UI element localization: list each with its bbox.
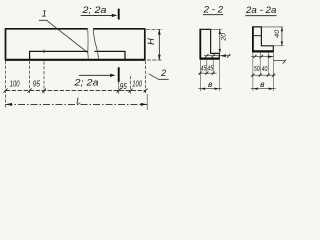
- 2-2 dim20 line: [219, 29, 221, 53]
- 2a quarter end slash: [283, 60, 287, 64]
- 2-2 small tick a: [199, 72, 202, 75]
- 2a small dim line: [251, 74, 275, 76]
- svg-text:40: 40: [262, 66, 268, 73]
- svg-text:40: 40: [274, 30, 281, 38]
- 2-2 quarter tick a: [205, 54, 209, 58]
- 2a quarter tick b: [260, 55, 264, 59]
- 2a dim40 mid extension: [274, 45, 284, 47]
- section 2a-2a inner line: [253, 35, 262, 37]
- section 2a-2a outline: [253, 27, 273, 52]
- 2a width arrow left: [253, 88, 258, 90]
- 2-2 small dim line: [199, 72, 217, 74]
- svg-text:2; 2а: 2; 2а: [73, 77, 98, 88]
- svg-text:50: 50: [254, 66, 260, 73]
- 2-2 width arrow left: [200, 88, 205, 90]
- extension line x29.6: [29, 61, 31, 94]
- svg-text:Н: Н: [146, 38, 156, 45]
- 2a quarter tick a: [253, 55, 257, 59]
- main view left edge: [5, 28, 7, 60]
- H dimension arrow down: [158, 55, 161, 60]
- L arrow right: [141, 103, 147, 106]
- section 2-2 left edge thick: [199, 29, 201, 60]
- break line left: [87, 29, 90, 59]
- notch inner line right: [95, 50, 126, 52]
- 2a quarter arrow tail: [274, 59, 286, 61]
- svg-text:45: 45: [201, 66, 207, 73]
- 2-2 quarter dim line: [204, 55, 220, 57]
- main view top edge left segment: [6, 28, 88, 30]
- svg-text:95: 95: [120, 81, 127, 91]
- svg-text:1: 1: [42, 8, 47, 18]
- svg-text:в: в: [260, 79, 265, 89]
- section 2-2 title underline: [203, 14, 223, 16]
- 2-2 dim20 arrow up: [219, 30, 221, 34]
- svg-text:95: 95: [33, 79, 40, 89]
- svg-text:L: L: [76, 95, 81, 105]
- 2a dim40 arrow up: [281, 27, 283, 31]
- 2-2 width dim line: [198, 88, 221, 90]
- tick x44: [42, 89, 46, 93]
- extension line x5.5: [5, 61, 7, 109]
- L right extension: [146, 94, 148, 110]
- 2-2 width arrow right: [215, 88, 220, 90]
- 2-2 dim20 arrow down: [219, 49, 221, 53]
- section mark top arrowhead: [112, 14, 118, 17]
- section mark top cutting bar: [118, 9, 120, 20]
- 2-2 quarter tick b: [211, 54, 215, 58]
- svg-text:2; 2а: 2; 2а: [81, 5, 106, 16]
- 2a bottom extension c: [267, 53, 269, 77]
- notch left vertical: [29, 51, 31, 60]
- H dimension top extension: [146, 28, 163, 30]
- section 2-2 outline: [200, 29, 219, 58]
- svg-text:2 - 2: 2 - 2: [203, 5, 223, 15]
- section 2a-2a title underline: [245, 15, 276, 17]
- callout 2 leader: [149, 74, 159, 80]
- callout 1 underline: [39, 19, 48, 21]
- L dimension line: [6, 103, 148, 105]
- svg-text:45: 45: [207, 66, 213, 73]
- tick x5.5: [4, 89, 8, 93]
- 2a width arrow right: [269, 88, 274, 90]
- L arrow left: [6, 103, 12, 106]
- 2-2 quarter end slash: [227, 54, 230, 58]
- 2-2 bottom extension b: [206, 60, 208, 74]
- 2-2 quarter outside arrow: [220, 54, 226, 57]
- section mark top shaft: [81, 14, 113, 16]
- tick x145.6: [144, 89, 148, 93]
- 2a bottom extension b: [259, 53, 261, 77]
- svg-text:100: 100: [132, 79, 142, 89]
- extension line x44: [43, 62, 45, 94]
- section 2a-2a bottom edge thick: [252, 50, 273, 52]
- extension line x118.7: [118, 82, 120, 94]
- 2a small tick d: [272, 74, 275, 77]
- H dimension bottom extension: [147, 59, 163, 61]
- tick x130.5: [129, 89, 133, 93]
- svg-text:2: 2: [160, 68, 166, 78]
- svg-text:20: 20: [220, 33, 227, 42]
- svg-text:100: 100: [10, 79, 20, 89]
- main view right edge: [144, 28, 146, 60]
- 2a small tick a: [251, 74, 254, 77]
- callout 2 underline: [158, 78, 168, 80]
- section mark bottom shaft: [79, 74, 111, 76]
- 2a bottom extension a: [252, 53, 254, 92]
- main view bottom edge: [5, 59, 145, 61]
- 2-2 bottom extension c: [212, 60, 214, 74]
- section mark bottom cutting bar: [118, 67, 120, 82]
- 2-2 bottom extension d: [218, 60, 220, 91]
- 2a dim40 top extension: [262, 26, 284, 28]
- 2-2 dim20 top extension: [211, 28, 222, 30]
- 2-2 bottom extension a: [199, 60, 201, 91]
- callout 1 leader: [47, 21, 87, 53]
- notch inner line left: [30, 50, 88, 52]
- H dimension line: [158, 30, 160, 60]
- 2a small tick b: [259, 74, 262, 77]
- 2-2 quarter arrow tail: [220, 55, 230, 57]
- notch right vertical: [124, 51, 126, 60]
- 2a small tick c: [267, 74, 270, 77]
- 2a quarter outside arrow: [268, 55, 274, 58]
- 2-2 small tick b: [205, 72, 208, 75]
- 2a dim40 line: [281, 27, 283, 46]
- section 2-2 bottom edge thick: [200, 57, 220, 59]
- svg-text:2а - 2а: 2а - 2а: [245, 5, 276, 15]
- 2a width dim line: [251, 88, 276, 90]
- extension line x145.6: [145, 61, 147, 94]
- H dimension arrow up: [158, 29, 161, 34]
- 2a bottom extension d: [273, 53, 275, 92]
- extension line x44 tick at notch: [43, 50, 45, 54]
- tick x29.6: [28, 89, 32, 93]
- section 2a-2a left edge thick: [252, 26, 254, 52]
- tick x118.7: [117, 89, 121, 93]
- 2a quarter dim line: [251, 56, 273, 58]
- main view top edge right segment: [93, 28, 145, 30]
- dimension line row1: [6, 90, 146, 92]
- break line right: [93, 29, 98, 59]
- 2-2 small tick c: [212, 72, 215, 75]
- svg-text:в: в: [208, 79, 213, 89]
- section mark bottom arrowhead: [110, 74, 116, 77]
- 2a dim40 arrow down: [281, 42, 283, 46]
- extension line x130.5: [130, 76, 132, 94]
